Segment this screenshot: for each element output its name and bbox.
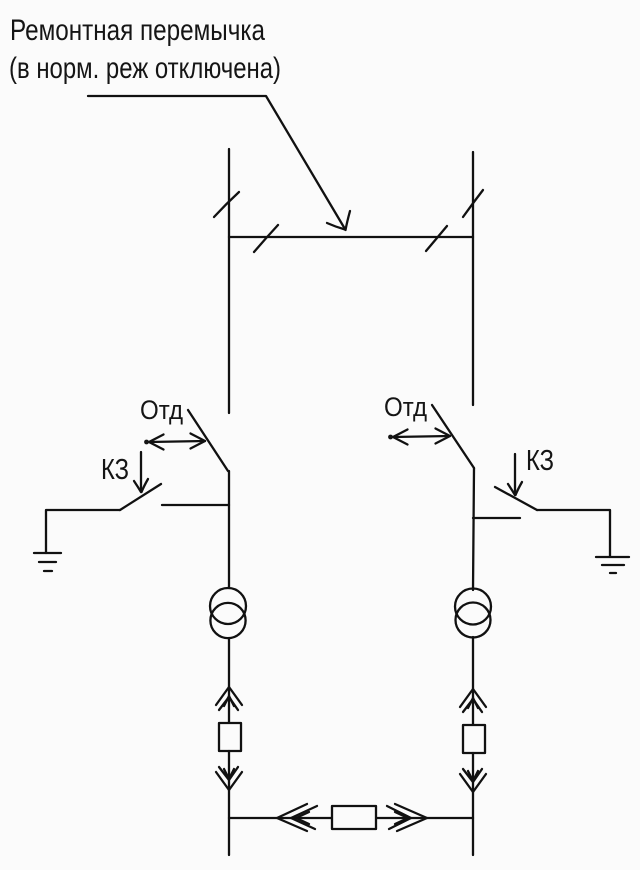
grounding switch КЗ (right): wire to ground <box>537 510 610 556</box>
direction arrows left (bottom tie) <box>277 804 317 831</box>
disconnector Отд (left): travel double-arrow <box>144 434 205 450</box>
direction arrows up (right feeder) <box>460 689 486 712</box>
direction arrows down (left feeder) <box>216 767 242 790</box>
ground symbol (right) <box>596 557 629 573</box>
transformer T2 (right, two-winding) <box>455 589 491 638</box>
grounding switch КЗ (left): pointer arrow <box>134 452 148 492</box>
disconnector Отд (right): travel double-arrow <box>388 429 450 445</box>
transformer T1 (left, two-winding) <box>210 588 246 638</box>
left wire: block to bottom tie <box>228 751 230 855</box>
grounding switch КЗ (right): fixed contact wire to line <box>473 517 520 519</box>
ground symbol (left) <box>34 553 61 571</box>
left wire: transformer to lower feeder <box>228 638 230 723</box>
break slash on left supply line <box>214 192 239 217</box>
annotation text: Ремонтная перемычка (в норм. реж отключена) <box>9 14 281 85</box>
break slash on jumper, left end <box>254 225 278 252</box>
svg-text:Отд: Отд <box>384 392 427 422</box>
leader arrow from annotation to jumper <box>88 96 350 230</box>
break slash on right supply line <box>463 190 483 217</box>
svg-text:Отд: Отд <box>140 395 183 425</box>
block rectangle (bottom tie) <box>332 806 376 829</box>
right wire: disconnector to grounding tap to transformer <box>473 468 474 590</box>
grounding switch КЗ (left): wire to ground <box>46 510 120 553</box>
svg-text:КЗ: КЗ <box>526 445 554 477</box>
grounding switch КЗ (right): blade <box>495 487 537 510</box>
right wire: transformer to lower feeder <box>472 637 474 725</box>
right supply line (upper section, wire) <box>472 152 474 405</box>
direction arrows down (right feeder) <box>460 769 486 792</box>
svg-text:(в норм. реж отключена): (в норм. реж отключена) <box>9 52 281 85</box>
bottom tie wire (left half) <box>229 817 332 819</box>
break slash on jumper, right end <box>426 226 447 251</box>
block rectangle (right feeder) <box>463 725 485 753</box>
repair jumper wire (перемычка) <box>229 236 473 238</box>
svg-text:Ремонтная перемычка: Ремонтная перемычка <box>10 14 265 47</box>
disconnector Отд (left): blade <box>188 410 228 471</box>
direction arrows up (left feeder) <box>216 687 242 710</box>
left supply line (upper section, wire) <box>228 149 230 413</box>
grounding switch КЗ (left): fixed contact wire to line <box>162 504 229 506</box>
svg-text:КЗ: КЗ <box>101 454 129 486</box>
block rectangle (left feeder) <box>219 723 241 751</box>
disconnector Отд (right): blade <box>432 405 474 468</box>
direction arrows right (bottom tie) <box>387 804 427 831</box>
left wire: disconnector to grounding tap to transformer <box>228 471 230 588</box>
grounding switch КЗ (left): blade <box>120 484 161 510</box>
grounding switch КЗ (right): pointer arrow <box>508 454 522 495</box>
right wire: block to bottom tie <box>472 753 474 855</box>
bottom tie wire (right half) <box>376 817 473 819</box>
